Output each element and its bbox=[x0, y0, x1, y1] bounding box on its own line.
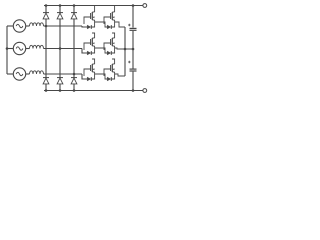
wire phase C from L3 across bridge legs bbox=[44, 73, 83, 75]
wire bridge leg 3 vertical bbox=[73, 6, 75, 91]
diode series with Q3 bbox=[87, 51, 91, 55]
wire DC link branch middle bbox=[132, 31, 134, 69]
wire positive DC rail bbox=[44, 5, 143, 7]
wire source lead Q5 bbox=[94, 72, 96, 74]
node phase C / bridge leg 3 bbox=[73, 73, 76, 76]
capacitor C1 (upper DC link) bbox=[130, 27, 137, 29]
node leg 1 / positive rail bbox=[45, 4, 48, 7]
AC source V1 bbox=[13, 20, 25, 32]
wire bridge leg 1 vertical bbox=[45, 6, 47, 91]
wire left bus to source V3 bbox=[7, 73, 13, 75]
wire gate lead Q6 bbox=[104, 69, 111, 76]
wire DC link branch upper bbox=[132, 6, 134, 28]
wire phase B corner down to switch cell row 2 bbox=[82, 49, 87, 54]
wire drain stub Q3 bbox=[92, 33, 95, 38]
node leg 2 / positive rail bbox=[59, 4, 62, 7]
wire phase B from L2 across bridge legs bbox=[44, 48, 83, 50]
transistor Q4 (MOSFET, phase row 2) bbox=[111, 38, 113, 46]
label C1 polarity + bbox=[128, 24, 131, 27]
capacitor C2 (lower DC link) bbox=[130, 68, 137, 70]
wire left bus to source V1 bbox=[7, 25, 13, 27]
node leg 1 / negative rail bbox=[45, 89, 48, 92]
node DC link midpoint bbox=[132, 48, 135, 51]
wire diode cathode up to source node Q1 bbox=[91, 22, 94, 27]
inductor L1 bbox=[30, 23, 44, 26]
wire source V2 to inductor L2 bbox=[26, 48, 30, 50]
wire DC link branch lower bbox=[132, 72, 134, 91]
wire phase A from L1 across bridge legs bbox=[44, 25, 83, 27]
inductor L3 bbox=[30, 71, 44, 74]
node DC link / negative rail bbox=[132, 89, 135, 92]
diode D5 (lower, leg 2) bbox=[57, 77, 63, 79]
transistor Q6 (MOSFET, phase row 3) bbox=[111, 64, 113, 72]
transistor Q2 (MOSFET, phase row 1) bbox=[111, 12, 113, 20]
wire drain stub Q6 bbox=[112, 59, 115, 64]
node leg 3 / negative rail bbox=[73, 89, 76, 92]
wire source lead Q4 bbox=[114, 46, 116, 48]
wire left vertical bus connecting sources bbox=[6, 26, 8, 74]
wire switch row 3 output to neutral bus bbox=[115, 74, 125, 76]
wire gate lead Q1 bbox=[84, 17, 91, 24]
inductor L2 bbox=[30, 45, 44, 48]
wire gate lead Q2 bbox=[104, 17, 111, 24]
wire switch row 1 output to neutral bus bbox=[115, 22, 125, 27]
node junction left bus / source 2 bbox=[6, 47, 9, 50]
wire diode cathode up to source node Q2 bbox=[111, 22, 114, 27]
label C2 polarity + bbox=[128, 61, 131, 64]
diode series with Q1 bbox=[87, 25, 91, 29]
node phase B / bridge leg 2 bbox=[59, 47, 62, 50]
wire phase C corner down to switch cell row 3 bbox=[82, 74, 87, 79]
diode series with Q6 bbox=[107, 77, 111, 81]
node DC link / positive rail bbox=[132, 4, 135, 7]
wire drain Q1 to positive rail bbox=[94, 6, 96, 13]
terminal DC+ output bbox=[143, 4, 147, 8]
diode series with Q5 bbox=[87, 77, 91, 81]
wire bridge leg 2 vertical bbox=[59, 6, 61, 91]
wire source V1 to inductor L1 bbox=[26, 25, 30, 27]
wire switch row 3: cell1 source to cell2 anode bbox=[95, 74, 108, 79]
wire switch row 1: cell1 source to cell2 anode bbox=[95, 22, 108, 27]
AC source V2 bbox=[13, 42, 25, 54]
transistor Q1 (MOSFET, phase row 1) bbox=[91, 12, 93, 20]
diode series with Q4 bbox=[107, 51, 111, 55]
wire phase A corner down to switch cell row 1 bbox=[82, 26, 87, 27]
node phase A / bridge leg 1 bbox=[45, 25, 48, 28]
terminal DC- output bbox=[143, 89, 147, 93]
node leg 3 / positive rail bbox=[73, 4, 76, 7]
wire neutral bus vertical bbox=[124, 27, 126, 76]
wire drain stub Q5 bbox=[92, 59, 95, 64]
node leg 2 / negative rail bbox=[59, 89, 62, 92]
wire gate lead Q4 bbox=[104, 43, 111, 50]
transistor Q3 (MOSFET, phase row 2) bbox=[91, 38, 93, 46]
wire switch row 2: cell1 source to cell2 anode bbox=[95, 48, 108, 53]
wire drain Q2 to positive rail bbox=[114, 6, 116, 13]
wire negative DC rail bbox=[44, 90, 143, 92]
wire drain stub Q4 bbox=[112, 33, 115, 38]
diode series with Q2 bbox=[107, 25, 111, 29]
AC source V3 bbox=[13, 68, 25, 80]
diode D1 (upper, leg 1) bbox=[43, 12, 49, 14]
diode D3 (upper, leg 3) bbox=[71, 12, 77, 14]
wire diode cathode up to source node Q4 bbox=[111, 48, 114, 53]
wire diode cathode up to source node Q5 bbox=[91, 74, 94, 79]
wire source lead Q2 bbox=[114, 20, 116, 22]
wire source lead Q6 bbox=[114, 72, 116, 74]
wire left bus to source V2 bbox=[7, 48, 13, 50]
wire diode cathode up to source node Q3 bbox=[91, 48, 94, 53]
wire source lead Q3 bbox=[94, 46, 96, 48]
diode D6 (lower, leg 3) bbox=[71, 77, 77, 79]
wire switch row 2 output to DC midpoint bbox=[115, 48, 133, 49]
wire diode cathode up to source node Q6 bbox=[111, 74, 114, 79]
diode D4 (lower, leg 1) bbox=[43, 77, 49, 79]
transistor Q5 (MOSFET, phase row 3) bbox=[91, 64, 93, 72]
wire source V3 to inductor L3 bbox=[26, 73, 30, 75]
wire source lead Q1 bbox=[94, 20, 96, 22]
wire gate lead Q5 bbox=[84, 69, 91, 76]
node neutral bus / row 2 bbox=[124, 48, 127, 51]
diode D2 (upper, leg 2) bbox=[57, 12, 63, 14]
wire gate lead Q3 bbox=[84, 43, 91, 50]
